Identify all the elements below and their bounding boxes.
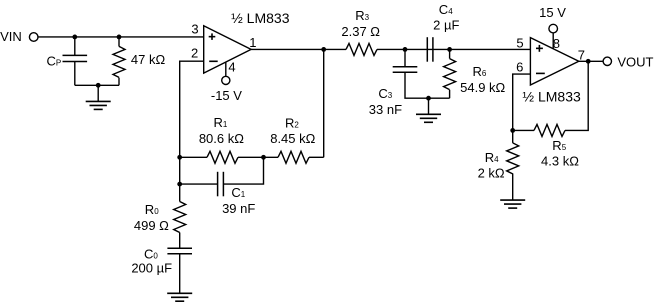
svg-text:4.3 kΩ: 4.3 kΩ <box>541 154 579 169</box>
wire op2 output <box>579 60 603 62</box>
wire op1 output <box>251 48 346 50</box>
svg-text:R4: R4 <box>485 150 499 165</box>
wire C3 stem top <box>404 49 406 66</box>
resistor R3 <box>346 43 377 55</box>
op-amp U2 triangle <box>530 38 578 85</box>
wire R3 right to pin5 <box>377 48 530 50</box>
wire 47k top <box>118 37 120 47</box>
op-amp U1 triangle <box>204 26 251 73</box>
svg-text:200 µF: 200 µF <box>131 260 172 275</box>
wire R1-R2 <box>238 156 278 158</box>
junction node fb left C1 <box>177 182 182 187</box>
capacitor C3 plates <box>393 66 418 68</box>
svg-text:8.45 kΩ: 8.45 kΩ <box>270 131 315 146</box>
wire bottom row input <box>75 84 119 86</box>
svg-text:499 Ω: 499 Ω <box>134 218 169 233</box>
ground G2 <box>167 293 192 301</box>
svg-text:R6: R6 <box>473 64 487 79</box>
svg-text:C4: C4 <box>439 2 453 17</box>
capacitor C1 plates <box>217 172 219 197</box>
svg-text:2: 2 <box>191 45 198 60</box>
svg-text:8: 8 <box>553 36 560 51</box>
wire R5 left <box>513 129 534 131</box>
wire ground3 stem <box>428 98 430 114</box>
svg-text:R5: R5 <box>552 138 566 153</box>
resistor R6 vertical <box>444 59 456 90</box>
capacitor CP plates <box>63 54 88 56</box>
junction node R4-R5 <box>510 128 515 133</box>
svg-text:15 V: 15 V <box>539 5 566 20</box>
capacitor C0 plates <box>167 247 192 249</box>
junction node op1 output <box>321 47 326 52</box>
svg-text:33 nF: 33 nF <box>369 102 402 117</box>
svg-text:½ LM833: ½ LM833 <box>522 88 581 104</box>
svg-text:2.37 Ω: 2.37 Ω <box>341 24 380 39</box>
svg-text:VIN: VIN <box>0 29 22 44</box>
svg-text:80.6 kΩ: 80.6 kΩ <box>199 131 244 146</box>
svg-text:4: 4 <box>228 59 235 74</box>
svg-text:2 kΩ: 2 kΩ <box>478 165 505 180</box>
svg-text:6: 6 <box>516 60 523 75</box>
wire C3 bottom <box>405 72 450 98</box>
wire R0 to C0 <box>179 233 181 249</box>
terminal 15V pin8 <box>549 24 558 33</box>
svg-text:R0: R0 <box>145 202 159 217</box>
svg-text:R3: R3 <box>355 8 369 23</box>
ground G3 <box>416 114 441 122</box>
wire ground1 stem <box>97 85 99 101</box>
svg-text:C1: C1 <box>231 185 245 200</box>
svg-text:7: 7 <box>578 48 585 63</box>
wire output down to R5 <box>565 61 588 130</box>
wire CP stem top <box>74 37 76 56</box>
op-amp U2 plus <box>536 45 543 52</box>
svg-text:VOUT: VOUT <box>617 54 653 69</box>
op-amp U1 plus <box>209 33 216 40</box>
op-amp U1 minus <box>209 60 218 62</box>
wire CP stem bottom <box>74 62 76 86</box>
wire R2 right <box>309 156 324 158</box>
junction node ground3 <box>426 96 431 101</box>
wire C1 left <box>180 183 218 185</box>
svg-text:54.9 kΩ: 54.9 kΩ <box>460 80 505 95</box>
ground G4 <box>500 200 525 208</box>
svg-text:5: 5 <box>516 36 523 51</box>
junction node ground1 <box>96 83 101 88</box>
svg-text:39 nF: 39 nF <box>222 201 255 216</box>
svg-text:C3: C3 <box>378 86 392 101</box>
wire 47k bottom <box>118 78 120 86</box>
wire R4 bottom <box>512 173 514 200</box>
terminal -15V pin4 <box>222 76 230 84</box>
junction node C4-R6 <box>447 47 452 52</box>
svg-text:R2: R2 <box>285 115 299 130</box>
wire VIN to pin3 <box>38 36 204 38</box>
svg-text:R1: R1 <box>214 115 228 130</box>
wire R6 top <box>449 49 451 58</box>
resistor 47k vertical <box>113 46 125 77</box>
svg-text:-15 V: -15 V <box>211 88 242 103</box>
resistor R4 vertical <box>507 143 519 174</box>
junction node R1-R2 <box>261 155 266 160</box>
wire C1 right <box>223 157 263 184</box>
junction node R3-C3 <box>403 47 408 52</box>
junction node fb left top <box>177 155 182 160</box>
resistor R1 <box>207 151 238 163</box>
svg-text:2 µF: 2 µF <box>433 18 459 33</box>
wire pin4 stub <box>225 62 227 76</box>
svg-text:3: 3 <box>191 22 198 37</box>
svg-text:47 kΩ: 47 kΩ <box>131 52 166 67</box>
wire R6 bottom <box>449 90 451 98</box>
svg-text:CP: CP <box>47 54 62 69</box>
wire pin6 stub <box>513 74 531 143</box>
junction node input-CP <box>72 35 77 40</box>
wire C0 to ground <box>179 254 181 294</box>
resistor R2 <box>278 151 309 163</box>
svg-text:1: 1 <box>249 35 256 50</box>
wire pin2 stub <box>180 61 204 201</box>
ground G1 <box>86 101 111 109</box>
terminal VOUT <box>603 57 611 65</box>
wire output down to feedback <box>323 49 325 157</box>
capacitor C4 plates <box>426 37 428 62</box>
svg-text:C0: C0 <box>144 246 158 261</box>
junction node input-47k <box>117 35 122 40</box>
resistor R0 vertical <box>174 202 186 233</box>
resistor R5 <box>534 124 565 136</box>
wire R1 left <box>180 156 207 158</box>
wire pin8 stub <box>552 33 554 49</box>
terminal VIN <box>29 33 38 42</box>
op-amp U2 minus <box>536 72 545 74</box>
junction node op2 output <box>586 59 591 64</box>
svg-text:½ LM833: ½ LM833 <box>231 10 290 26</box>
